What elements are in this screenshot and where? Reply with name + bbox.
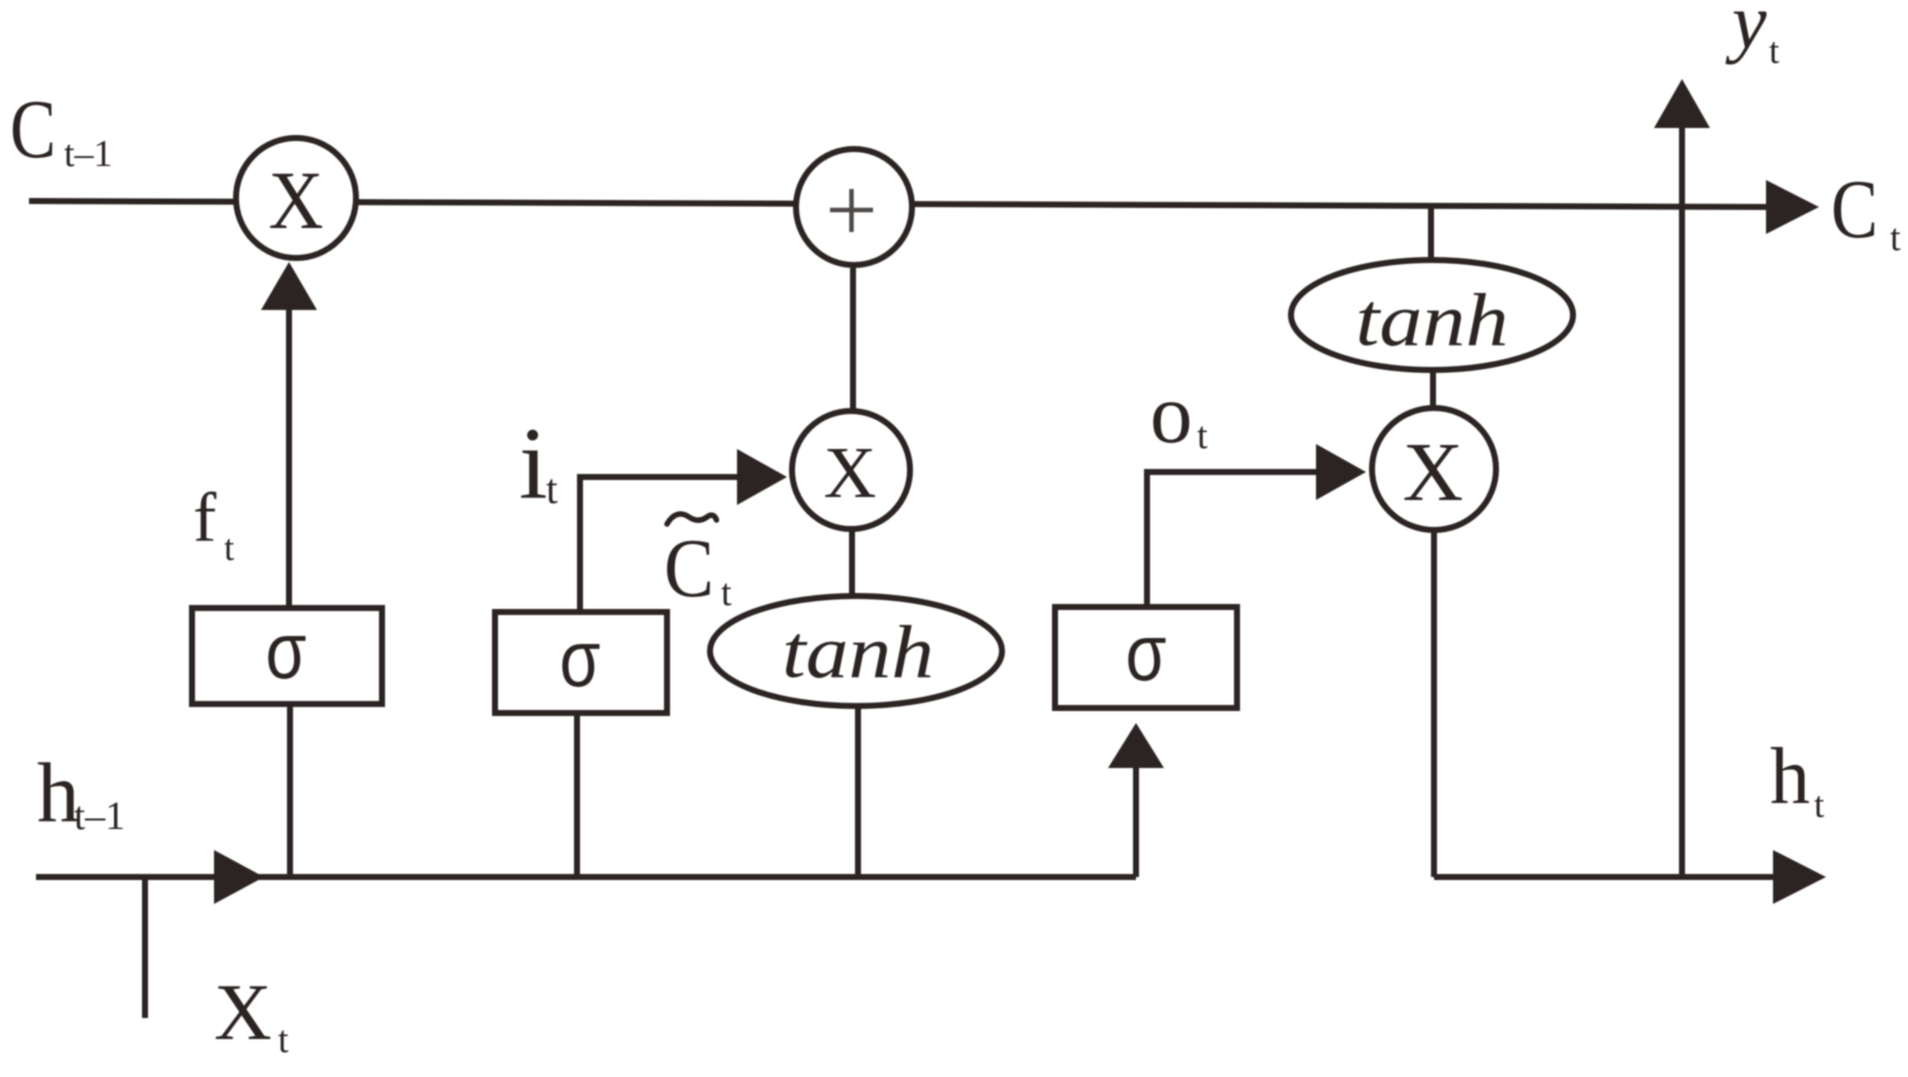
svg-text:X: X (214, 969, 272, 1057)
tanh1 ellipse (710, 596, 1002, 706)
svg-text:tanh: tanh (1356, 279, 1509, 362)
wire tanh1 ellipse to bottom line (855, 708, 861, 877)
svg-text:X: X (269, 154, 324, 246)
svg-text:i: i (519, 407, 548, 521)
wire bottom h line right segment (1434, 874, 1775, 880)
svg-text:σ: σ (266, 606, 307, 695)
arrowhead f_t into X1 (261, 262, 317, 310)
wire i_t sigma2 to X2 circle (580, 477, 740, 609)
svg-text:X: X (824, 432, 877, 513)
arrowhead i_t into X2 (737, 449, 787, 505)
X2 multiply circle (792, 411, 910, 529)
wire X2 circle to tanh1 ellipse (849, 528, 855, 596)
wire tanh2 ellipse to X3 circle (1430, 372, 1436, 410)
svg-text:t: t (1890, 217, 1901, 259)
arrowhead y_t output (1654, 79, 1710, 128)
arrowhead into sigma3 (1108, 723, 1164, 768)
arrowhead o_t into X3 (1316, 444, 1366, 500)
svg-text:t: t (278, 1019, 289, 1061)
wire sigma2 to bottom line (574, 716, 580, 877)
wire f_t sigma1 to X1 circle (286, 300, 292, 605)
arrowhead h_t output (1773, 850, 1826, 904)
svg-text:σ: σ (1126, 608, 1167, 697)
svg-text:σ: σ (560, 614, 601, 703)
wire main C line (29, 201, 1775, 207)
wire bottom h line left segment (36, 874, 1136, 880)
svg-text:t: t (546, 467, 558, 513)
svg-text:t–1: t–1 (74, 793, 125, 838)
wire plus circle to X2 circle (850, 268, 856, 412)
sigma3 box (1055, 607, 1237, 708)
svg-text:t: t (1814, 785, 1825, 826)
svg-text:t: t (1197, 415, 1208, 457)
plus sign in add circle (830, 189, 873, 232)
svg-text:y: y (1725, 0, 1767, 65)
svg-text:t: t (1769, 31, 1780, 72)
wire o_t sigma3 to X3 circle (1147, 472, 1319, 604)
wire y_t vertical (1679, 125, 1685, 876)
svg-text:t: t (224, 528, 235, 569)
tanh2 ellipse (1291, 260, 1573, 370)
wire X_t stub (142, 877, 148, 1018)
svg-text:t–1: t–1 (64, 133, 113, 175)
svg-text:o: o (1150, 367, 1193, 461)
wire sigma1 to bottom line (287, 707, 293, 877)
wire junction main line to tanh2 ellipse (1428, 206, 1434, 260)
X3 multiply circle (1372, 408, 1496, 530)
svg-text:C: C (664, 522, 714, 615)
sigma1 box (192, 608, 382, 704)
svg-text:h: h (1770, 733, 1810, 821)
svg-text:X: X (1403, 426, 1464, 519)
svg-text:tanh: tanh (782, 611, 934, 694)
svg-text:f: f (193, 480, 217, 557)
arrowhead C_t output (1766, 180, 1819, 234)
svg-text:C: C (10, 83, 56, 176)
svg-text:C: C (1831, 163, 1878, 256)
arrowhead bottom h line (214, 850, 264, 904)
wire X3 circle to bottom line (1431, 530, 1437, 877)
svg-text:t: t (721, 572, 732, 614)
plus add circle (796, 149, 912, 265)
sigma2 box (495, 612, 667, 713)
wire sigma3 up-arrow from bottom line (1133, 760, 1139, 877)
X1 multiply circle (236, 138, 356, 258)
